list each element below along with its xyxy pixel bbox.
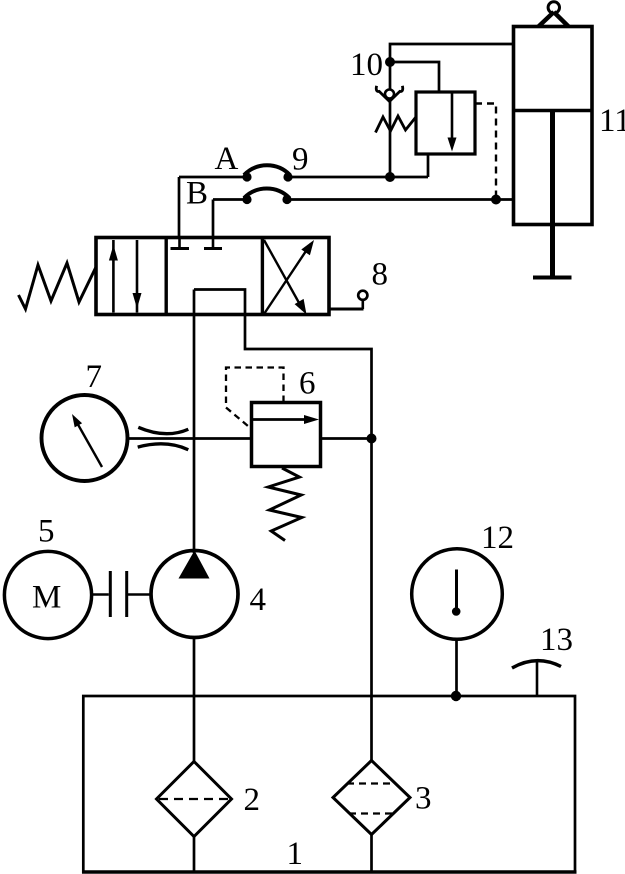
svg-text:6: 6: [299, 366, 316, 402]
svg-text:B: B: [186, 176, 208, 212]
wire B vertical to valve: [212, 200, 215, 240]
tank 1 body: [83, 696, 575, 872]
relief valve 6 internal arrow: [253, 418, 305, 421]
pump 4 triangle: [179, 551, 210, 579]
svg-text:10: 10: [350, 47, 383, 83]
relief valve 6 spring: [268, 468, 302, 541]
svg-text:1: 1: [287, 836, 304, 872]
valve port B stub: [212, 238, 215, 249]
filter 3 diamond: [333, 761, 410, 835]
cylinder 11 eye ring: [548, 2, 559, 13]
wire return line to tank: [370, 439, 373, 761]
pump 4 body: [151, 551, 238, 638]
svg-text:2: 2: [244, 782, 261, 818]
svg-text:11: 11: [599, 103, 625, 139]
wire gauge to relief valve: [128, 437, 252, 440]
cylinder 11 piston: [514, 109, 593, 113]
svg-text:12: 12: [481, 520, 514, 556]
node dot relief outlet junction: [367, 434, 377, 444]
valve divider left: [164, 238, 167, 315]
thermometer 12 stem: [455, 570, 458, 609]
filter 3 element dashed upper: [347, 782, 396, 784]
throttle orifice arcs: [138, 427, 188, 433]
svg-text:A: A: [215, 141, 239, 177]
svg-text:7: 7: [86, 359, 103, 395]
cylinder 11 body: [514, 27, 593, 225]
tank 1 bottom thick line: [82, 870, 577, 874]
wire B-line left segment: [213, 198, 247, 201]
pilot check valve 10 box: [416, 92, 475, 154]
wire check valve vertical upper: [389, 62, 392, 89]
check valve ball: [385, 90, 394, 99]
motor 5 body: [4, 551, 91, 638]
thermometer 12 body: [412, 549, 503, 640]
wire filter 3 to tank bottom: [370, 835, 373, 871]
valve left cell down arrow: [136, 240, 139, 313]
check valve spring: [376, 116, 416, 133]
svg-text:9: 9: [292, 142, 309, 178]
directional valve envelope: [96, 238, 329, 315]
filter 2 element dashed: [159, 798, 229, 800]
svg-text:5: 5: [38, 514, 55, 550]
valve right cell X arrow down-right: [264, 240, 303, 310]
check valve seat: [376, 86, 403, 102]
wire A vertical to valve: [178, 177, 181, 239]
coupling shaft: [92, 593, 109, 596]
breather 13 stem: [536, 661, 539, 696]
quick coupling 9 upper arc: [244, 165, 290, 175]
wire B-line right segment: [287, 198, 514, 201]
wire check valve vertical lower: [389, 102, 392, 178]
relief valve 6 pilot dashed loop: [226, 368, 284, 430]
gauge 7 needle: [76, 421, 102, 467]
cylinder 11 clevis legs: [539, 12, 569, 27]
gauge 7 body: [42, 395, 128, 481]
node dot at top of check valve branch: [385, 57, 395, 67]
pilot line dashed from box to B-line: [475, 104, 496, 200]
filter 2 diamond: [157, 762, 232, 837]
pilot box bottom port wire: [427, 154, 430, 177]
wire A-line left segment: [179, 176, 247, 179]
cylinder 11 rod: [550, 111, 555, 278]
quick coupling 9 lower arc: [244, 189, 290, 198]
roller actuator 8: [330, 308, 364, 311]
svg-text:8: 8: [372, 257, 389, 293]
valve right cell X arrow up-right: [264, 244, 311, 315]
breather 13 cap arc: [512, 661, 561, 668]
valve divider right: [261, 238, 264, 315]
pilot check valve 10 internal arrow: [451, 94, 454, 140]
quick coupling 9 upper dots: [242, 172, 251, 181]
valve return spring left: [19, 263, 97, 309]
wire P-line valve to pump: [193, 290, 196, 554]
node dot on tank top: [451, 691, 461, 701]
wire P-T bridge under valve: [194, 290, 372, 439]
wire filter 2 to tank bottom: [193, 837, 196, 871]
valve left cell up arrow: [112, 240, 115, 313]
quick coupling 9 lower dots: [242, 195, 251, 204]
svg-text:13: 13: [540, 622, 573, 658]
wire pump suction: [193, 638, 196, 762]
svg-text:3: 3: [415, 781, 432, 817]
filter 3 element dashed lower: [349, 812, 394, 814]
node dot on B-line: [491, 195, 501, 205]
svg-text:M: M: [32, 580, 61, 616]
node dot A-line junction: [385, 172, 395, 182]
wire thermometer to tank: [455, 640, 458, 697]
wire relief valve outlet: [321, 437, 372, 440]
wire to pilot box top port: [390, 62, 439, 92]
wire A-line right segment: [288, 176, 428, 179]
valve port A stub: [178, 238, 181, 249]
wire cap-end line to cylinder: [390, 44, 514, 62]
cylinder 11 rod foot: [533, 276, 572, 280]
svg-text:4: 4: [250, 582, 267, 618]
relief valve 6 box: [252, 403, 321, 467]
